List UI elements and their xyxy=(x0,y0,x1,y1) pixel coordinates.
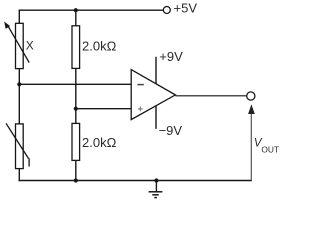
svg-text:+9V: +9V xyxy=(159,49,183,64)
wire inverting input (node A to op-amp) xyxy=(19,83,131,85)
terminal VOUT xyxy=(247,92,255,100)
op-amp minus sign xyxy=(137,84,143,86)
op-amp plus sign xyxy=(138,107,143,112)
junction dot bottom rail / ground xyxy=(154,178,158,182)
node B junction dot (middle column / non-inverting wire) xyxy=(74,107,78,111)
wire middle column middle segment xyxy=(75,68,77,123)
svg-text:+5V: +5V xyxy=(174,0,198,15)
wire left column lower stub xyxy=(18,169,20,182)
resistor R4 2.0k (bottom-middle) xyxy=(72,123,80,160)
junction dot top rail / middle column xyxy=(74,8,78,12)
svg-text:2.0kΩ: 2.0kΩ xyxy=(82,39,117,54)
wire top rail xyxy=(19,9,163,11)
svg-text:X: X xyxy=(26,39,34,53)
wire op-amp output xyxy=(175,95,246,97)
wire middle column upper stub xyxy=(75,10,77,26)
svg-text:−9V: −9V xyxy=(159,123,183,138)
resistor thermistor (bottom-left) xyxy=(6,123,29,168)
wire -9V supply xyxy=(155,106,157,129)
wire bottom rail xyxy=(19,180,252,182)
ground xyxy=(149,181,163,198)
junction dot bottom rail / middle column xyxy=(74,178,78,182)
op-amp U1 xyxy=(131,70,175,120)
wire +9V supply xyxy=(155,57,157,84)
wire non-inverting input (node B to op-amp) xyxy=(76,108,131,110)
wire left column middle segment xyxy=(18,69,20,124)
resistor X (variable sensor, top-left) xyxy=(4,22,29,69)
svg-text:OUT: OUT xyxy=(261,145,279,155)
wire left column upper stub xyxy=(18,10,20,24)
resistor R2 2.0k (top-middle) xyxy=(72,26,80,69)
wire middle column lower stub xyxy=(75,160,77,180)
vout reference arrow xyxy=(248,104,255,180)
svg-text:2.0kΩ: 2.0kΩ xyxy=(82,135,117,150)
terminal +5V xyxy=(163,7,170,14)
node A junction dot (left column / inverting wire) xyxy=(17,82,21,86)
